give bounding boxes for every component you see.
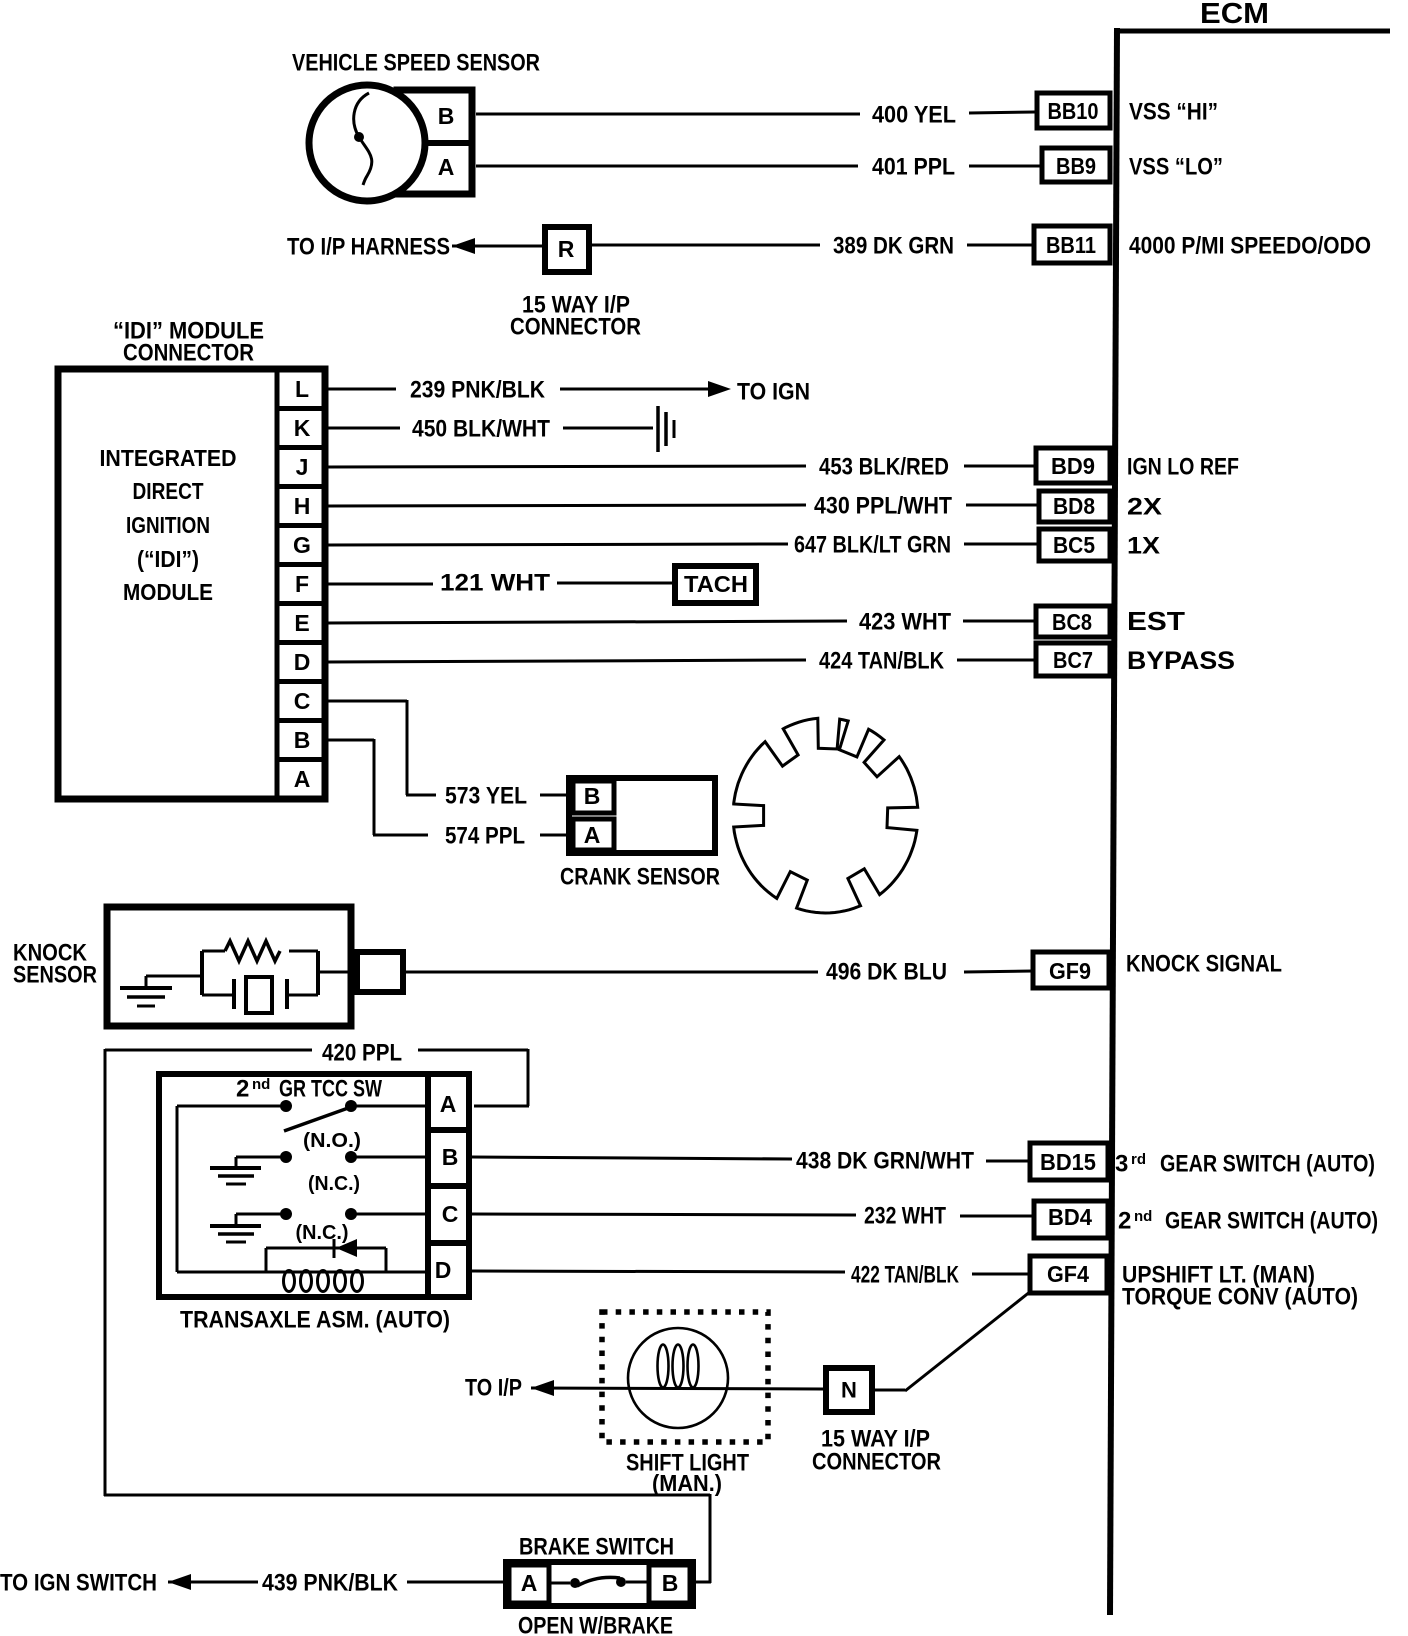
label 574 PPL — [445, 822, 525, 849]
svg-text:401 PPL: 401 PPL — [872, 153, 955, 180]
svg-text:2: 2 — [236, 1075, 249, 1102]
IDI module connector label — [113, 317, 264, 366]
svg-text:453 BLK/RED: 453 BLK/RED — [819, 453, 949, 480]
svg-text:OPEN W/BRAKE: OPEN W/BRAKE — [518, 1612, 673, 1636]
label N.O. — [303, 1130, 361, 1152]
ECM label BYPASS — [1127, 647, 1235, 675]
svg-text:IGN LO REF: IGN LO REF — [1127, 453, 1239, 480]
ECM connector BB10 — [1037, 93, 1110, 128]
wire 453 BLK/RED from pin J to BD9 — [327, 466, 1036, 467]
transaxle pin A letter — [440, 1091, 457, 1117]
brake switch open label — [518, 1612, 673, 1636]
vehicle speed sensor label — [292, 49, 540, 76]
label 573 YEL — [445, 782, 527, 809]
ECM label VSS HI — [1129, 98, 1218, 125]
svg-text:IGNITION: IGNITION — [126, 512, 210, 538]
crank sensor pin A — [573, 819, 614, 850]
svg-text:420 PPL: 420 PPL — [322, 1039, 402, 1066]
ECM label torque conv — [1122, 1283, 1358, 1310]
label 401 PPL — [872, 153, 955, 180]
2nd gear switch contacts — [236, 1208, 428, 1220]
wire 439 PNK/BLK — [168, 1581, 506, 1584]
svg-text:3: 3 — [1115, 1150, 1128, 1177]
svg-text:nd: nd — [252, 1076, 270, 1093]
wire 121 WHT from pin F to TACH — [327, 583, 675, 584]
svg-text:D: D — [435, 1257, 452, 1283]
ECM connector BC5 — [1039, 529, 1110, 561]
ECM connector BC7 — [1036, 643, 1110, 676]
svg-text:C: C — [442, 1201, 459, 1227]
wire 430 PPL/WHT from pin H to BD8 — [327, 505, 1039, 506]
brake switch label — [519, 1533, 674, 1560]
wire ground to knock network — [146, 975, 202, 978]
label 239 PNK/BLK — [410, 376, 546, 403]
ECM connector GF9 — [1033, 952, 1109, 988]
svg-text:389 DK GRN: 389 DK GRN — [833, 232, 954, 259]
svg-text:239 PNK/BLK: 239 PNK/BLK — [410, 376, 546, 403]
knock network right node — [316, 951, 320, 995]
label 439 PNK/BLK — [262, 1569, 399, 1596]
svg-text:438 DK GRN/WHT: 438 DK GRN/WHT — [796, 1147, 974, 1174]
ECM connector BB11 — [1034, 226, 1110, 263]
brake switch box — [506, 1562, 693, 1606]
ECM connector BD4 — [1034, 1201, 1108, 1238]
svg-text:BD9: BD9 — [1051, 453, 1095, 479]
VSS pin A label — [438, 154, 455, 180]
svg-text:424 TAN/BLK: 424 TAN/BLK — [819, 647, 945, 674]
arrow to IGN — [708, 381, 731, 397]
ECM label 4000 P/MI SPEEDO/ODO — [1129, 232, 1371, 259]
VSS pin B label — [438, 103, 455, 129]
ECM connector BD8 — [1039, 491, 1110, 522]
svg-text:(N.C.): (N.C.) — [308, 1173, 360, 1195]
svg-text:(“IDI”): (“IDI”) — [137, 546, 199, 572]
svg-text:(N.O.): (N.O.) — [303, 1130, 361, 1152]
label CONNECTOR bottom — [812, 1448, 941, 1475]
svg-text:574 PPL: 574 PPL — [445, 822, 525, 849]
svg-text:H: H — [294, 493, 311, 519]
brake switch pin A — [509, 1565, 549, 1603]
knock sensor label — [13, 939, 97, 988]
wire N to GF4 diagonal — [875, 1291, 1031, 1391]
label 496 DK BLU — [826, 958, 947, 985]
svg-text:TO I/P HARNESS: TO I/P HARNESS — [287, 233, 450, 260]
svg-text:K: K — [294, 415, 311, 441]
wire 438 DK GRN/WHT to BD15 — [472, 1157, 1032, 1161]
svg-text:KNOCK SIGNAL: KNOCK SIGNAL — [1126, 950, 1282, 977]
svg-text:VSS “LO”: VSS “LO” — [1129, 153, 1223, 180]
VSS connector pin block — [393, 90, 472, 194]
brake switch pin B — [649, 1565, 690, 1603]
transaxle pin C letter — [442, 1201, 459, 1227]
svg-text:D: D — [294, 649, 311, 675]
svg-text:BD4: BD4 — [1048, 1204, 1092, 1230]
transaxle pin D letter — [435, 1257, 452, 1283]
wire 574 PPL from pin B to crank sensor A — [327, 739, 573, 835]
wire from arrow to R connector — [452, 245, 545, 248]
arrow to ign switch — [168, 1574, 191, 1590]
svg-text:CONNECTOR: CONNECTOR — [123, 339, 254, 366]
transaxle box — [159, 1074, 469, 1297]
label TO IGN — [737, 378, 810, 405]
wire 400 YEL from VSS B to BB10 — [476, 112, 1035, 114]
svg-text:430 PPL/WHT: 430 PPL/WHT — [814, 492, 952, 519]
ECM label upshift lt — [1122, 1261, 1315, 1288]
label 232 WHT — [864, 1202, 946, 1229]
wire 424 TAN/BLK from pin D to BC7 — [327, 660, 1036, 662]
svg-text:A: A — [440, 1091, 457, 1117]
svg-text:BC5: BC5 — [1053, 532, 1095, 558]
svg-text:rd: rd — [1131, 1151, 1146, 1168]
knock network left node — [200, 951, 204, 995]
svg-text:A: A — [438, 154, 455, 180]
svg-text:BD15: BD15 — [1040, 1149, 1096, 1175]
svg-text:TRANSAXLE ASM. (AUTO): TRANSAXLE ASM. (AUTO) — [180, 1306, 450, 1333]
solenoid diode — [334, 1239, 357, 1258]
svg-text:MODULE: MODULE — [123, 579, 213, 605]
brake switch contacts — [549, 1577, 649, 1588]
ECM connector BD9 — [1036, 448, 1110, 483]
ECM label 2nd gear switch — [1118, 1207, 1378, 1234]
label 400 YEL — [872, 101, 956, 128]
knock resistor — [202, 941, 318, 961]
ground symbol for 450 BLK/WHT — [658, 406, 674, 452]
knock sensor ground — [120, 976, 172, 1006]
2nd gear TCC switch contacts — [177, 1100, 428, 1131]
IDI module box — [58, 369, 325, 799]
label TO I/P — [465, 1374, 522, 1401]
ECM label KNOCK SIGNAL — [1126, 950, 1282, 977]
svg-text:BB10: BB10 — [1048, 98, 1099, 124]
connector N 15-way — [826, 1368, 872, 1412]
svg-text:nd: nd — [1134, 1208, 1152, 1225]
svg-text:GR TCC SW: GR TCC SW — [279, 1075, 382, 1102]
svg-text:TO I/P: TO I/P — [465, 1374, 522, 1401]
ECM label IGN LO REF — [1127, 453, 1239, 480]
shift light filament — [658, 1345, 699, 1388]
label 121 WHT — [440, 569, 550, 596]
svg-text:CRANK SENSOR: CRANK SENSOR — [560, 863, 720, 890]
ECM connector BD15 — [1030, 1143, 1108, 1180]
wire 420 PPL top run — [105, 1049, 529, 1106]
svg-text:BB9: BB9 — [1056, 153, 1096, 179]
svg-text:EST: EST — [1127, 606, 1185, 636]
label CONNECTOR top — [510, 313, 641, 340]
svg-text:232 WHT: 232 WHT — [864, 1202, 946, 1229]
svg-text:G: G — [293, 532, 311, 558]
svg-text:F: F — [295, 571, 309, 597]
svg-text:450 BLK/WHT: 450 BLK/WHT — [412, 415, 550, 442]
wire 423 WHT from pin E to BC8 — [327, 621, 1036, 623]
svg-text:J: J — [296, 454, 309, 480]
svg-text:A: A — [521, 1570, 538, 1596]
label 422 TAN/BLK — [851, 1261, 959, 1288]
2nd gear switch ground — [210, 1214, 261, 1242]
svg-text:TO IGN SWITCH: TO IGN SWITCH — [0, 1569, 157, 1596]
svg-text:423 WHT: 423 WHT — [859, 608, 951, 635]
svg-text:400 YEL: 400 YEL — [872, 101, 956, 128]
wire 450 BLK/WHT from pin K — [327, 427, 653, 430]
wire 389 DK GRN from R to BB11 — [592, 244, 1034, 247]
svg-text:TO IGN: TO IGN — [737, 378, 810, 405]
svg-text:TORQUE CONV (AUTO): TORQUE CONV (AUTO) — [1122, 1283, 1358, 1310]
svg-text:439 PNK/BLK: 439 PNK/BLK — [262, 1569, 399, 1596]
svg-text:N: N — [841, 1378, 857, 1403]
knock piezo element — [202, 977, 318, 1013]
ECM connector BC8 — [1036, 606, 1110, 637]
label N.C. lower — [296, 1222, 349, 1244]
wire 232 WHT to BD4 — [472, 1214, 1036, 1216]
svg-text:B: B — [438, 103, 455, 129]
ECM label 1X — [1127, 532, 1160, 559]
wire 239 PNK/BLK from pin L — [327, 388, 709, 391]
svg-text:422 TAN/BLK: 422 TAN/BLK — [851, 1261, 959, 1288]
shift light dotted box — [602, 1312, 768, 1442]
svg-text:INTEGRATED: INTEGRATED — [100, 445, 237, 471]
svg-text:BC8: BC8 — [1052, 609, 1092, 635]
knock sensor output stub — [318, 971, 357, 974]
IDI module text — [100, 445, 237, 605]
ECM label EST — [1127, 606, 1185, 636]
crank sensor pin B — [573, 781, 614, 813]
wire 573 YEL from pin C to crank sensor B — [327, 700, 573, 795]
label TO IGN SWITCH — [0, 1569, 157, 1596]
label 2nd GR TCC SW — [236, 1075, 382, 1102]
wire bottom run from 420 PPL — [104, 1494, 711, 1583]
svg-text:L: L — [295, 376, 309, 402]
IDI pin letters — [293, 376, 311, 792]
svg-text:A: A — [294, 766, 311, 792]
crank sensor box — [569, 778, 715, 853]
wire 420 PPL left vertical — [104, 1049, 107, 1496]
label 438 DK GRN/WHT — [796, 1147, 974, 1174]
knock sensor box — [107, 907, 351, 1026]
TACH box — [675, 566, 756, 603]
label 453 BLK/RED — [819, 453, 949, 480]
shift light bulb — [628, 1328, 728, 1428]
svg-text:TACH: TACH — [684, 571, 748, 597]
wire 422 TAN/BLK to GF4 — [472, 1271, 1030, 1274]
svg-text:B: B — [294, 727, 311, 753]
VSS sensor body circle — [309, 85, 425, 201]
svg-text:2X: 2X — [1127, 493, 1162, 520]
svg-text:121 WHT: 121 WHT — [440, 569, 550, 596]
wire 496 DK BLU to GF9 — [406, 971, 1033, 972]
svg-text:DIRECT: DIRECT — [133, 478, 204, 504]
ECM vertical boundary line — [1110, 28, 1117, 1615]
label 430 PPL/WHT — [814, 492, 952, 519]
label 423 WHT — [859, 608, 951, 635]
svg-text:GF4: GF4 — [1047, 1261, 1089, 1287]
svg-text:BC7: BC7 — [1053, 647, 1093, 673]
wire 401 PPL from VSS A to BB9 — [476, 165, 1042, 168]
ECM label VSS LO — [1129, 153, 1223, 180]
connector R 15-way — [545, 227, 589, 272]
svg-text:BB11: BB11 — [1046, 232, 1096, 258]
svg-text:R: R — [558, 236, 575, 262]
svg-text:SENSOR: SENSOR — [13, 961, 97, 988]
label 15 WAY I/P — [522, 291, 630, 318]
wire shift light row — [531, 1388, 823, 1389]
crank interrupter wheel — [734, 718, 918, 913]
shift light label — [626, 1449, 749, 1496]
wire 647 BLK/LT GRN from pin G to BC5 — [327, 544, 1039, 545]
svg-text:A: A — [584, 822, 601, 848]
svg-text:1X: 1X — [1127, 532, 1160, 559]
svg-text:647 BLK/LT GRN: 647 BLK/LT GRN — [794, 531, 951, 558]
label 450 BLK/WHT — [412, 415, 550, 442]
label N.C. upper — [308, 1173, 360, 1195]
svg-text:573 YEL: 573 YEL — [445, 782, 527, 809]
svg-text:4000 P/MI SPEEDO/ODO: 4000 P/MI SPEEDO/ODO — [1129, 232, 1371, 259]
svg-text:B: B — [584, 783, 601, 809]
svg-text:ECM: ECM — [1200, 0, 1269, 30]
svg-text:C: C — [294, 688, 311, 714]
svg-text:B: B — [662, 1570, 679, 1596]
ECM connector BB9 — [1042, 148, 1110, 182]
svg-text:E: E — [294, 610, 309, 636]
ECM label — [1200, 0, 1269, 30]
arrow to I/P — [531, 1380, 554, 1396]
svg-text:VSS “HI”: VSS “HI” — [1129, 98, 1218, 125]
label 647 BLK/LT GRN — [794, 531, 951, 558]
ECM label 2X — [1127, 493, 1162, 520]
svg-text:(MAN.): (MAN.) — [652, 1470, 722, 1496]
ECM top boundary line — [1114, 29, 1390, 34]
svg-text:2: 2 — [1118, 1207, 1131, 1234]
knock sensor terminal box — [357, 952, 403, 992]
svg-text:GEAR SWITCH (AUTO): GEAR SWITCH (AUTO) — [1165, 1207, 1378, 1234]
arrow to I/P harness — [452, 238, 475, 254]
svg-text:VEHICLE SPEED SENSOR: VEHICLE SPEED SENSOR — [292, 49, 540, 76]
svg-text:496 DK BLU: 496 DK BLU — [826, 958, 947, 985]
transaxle internal left bus — [176, 1106, 179, 1272]
crank sensor label — [560, 863, 720, 890]
label 389 DK GRN — [833, 232, 954, 259]
label TO I/P HARNESS — [287, 233, 450, 260]
svg-text:B: B — [442, 1144, 459, 1170]
svg-text:BYPASS: BYPASS — [1127, 647, 1235, 675]
3rd gear switch contacts — [236, 1151, 428, 1163]
label 424 TAN/BLK — [819, 647, 945, 674]
ECM connector GF4 — [1030, 1256, 1107, 1293]
label 15 WAY I/P bottom — [821, 1425, 930, 1452]
3rd gear switch ground — [210, 1157, 261, 1184]
svg-text:CONNECTOR: CONNECTOR — [812, 1448, 941, 1475]
TCC solenoid coil — [177, 1248, 428, 1292]
svg-text:CONNECTOR: CONNECTOR — [510, 313, 641, 340]
ECM label 3rd gear switch — [1115, 1150, 1375, 1177]
transaxle label — [180, 1306, 450, 1333]
svg-text:BRAKE SWITCH: BRAKE SWITCH — [519, 1533, 674, 1560]
VSS sensor squiggle — [354, 93, 372, 185]
svg-text:GF9: GF9 — [1049, 958, 1091, 984]
svg-text:BD8: BD8 — [1053, 493, 1095, 519]
transaxle pin B letter — [442, 1144, 459, 1170]
label 420 PPL — [322, 1039, 402, 1066]
svg-text:GEAR SWITCH (AUTO): GEAR SWITCH (AUTO) — [1160, 1150, 1375, 1177]
svg-text:(N.C.): (N.C.) — [296, 1222, 349, 1244]
